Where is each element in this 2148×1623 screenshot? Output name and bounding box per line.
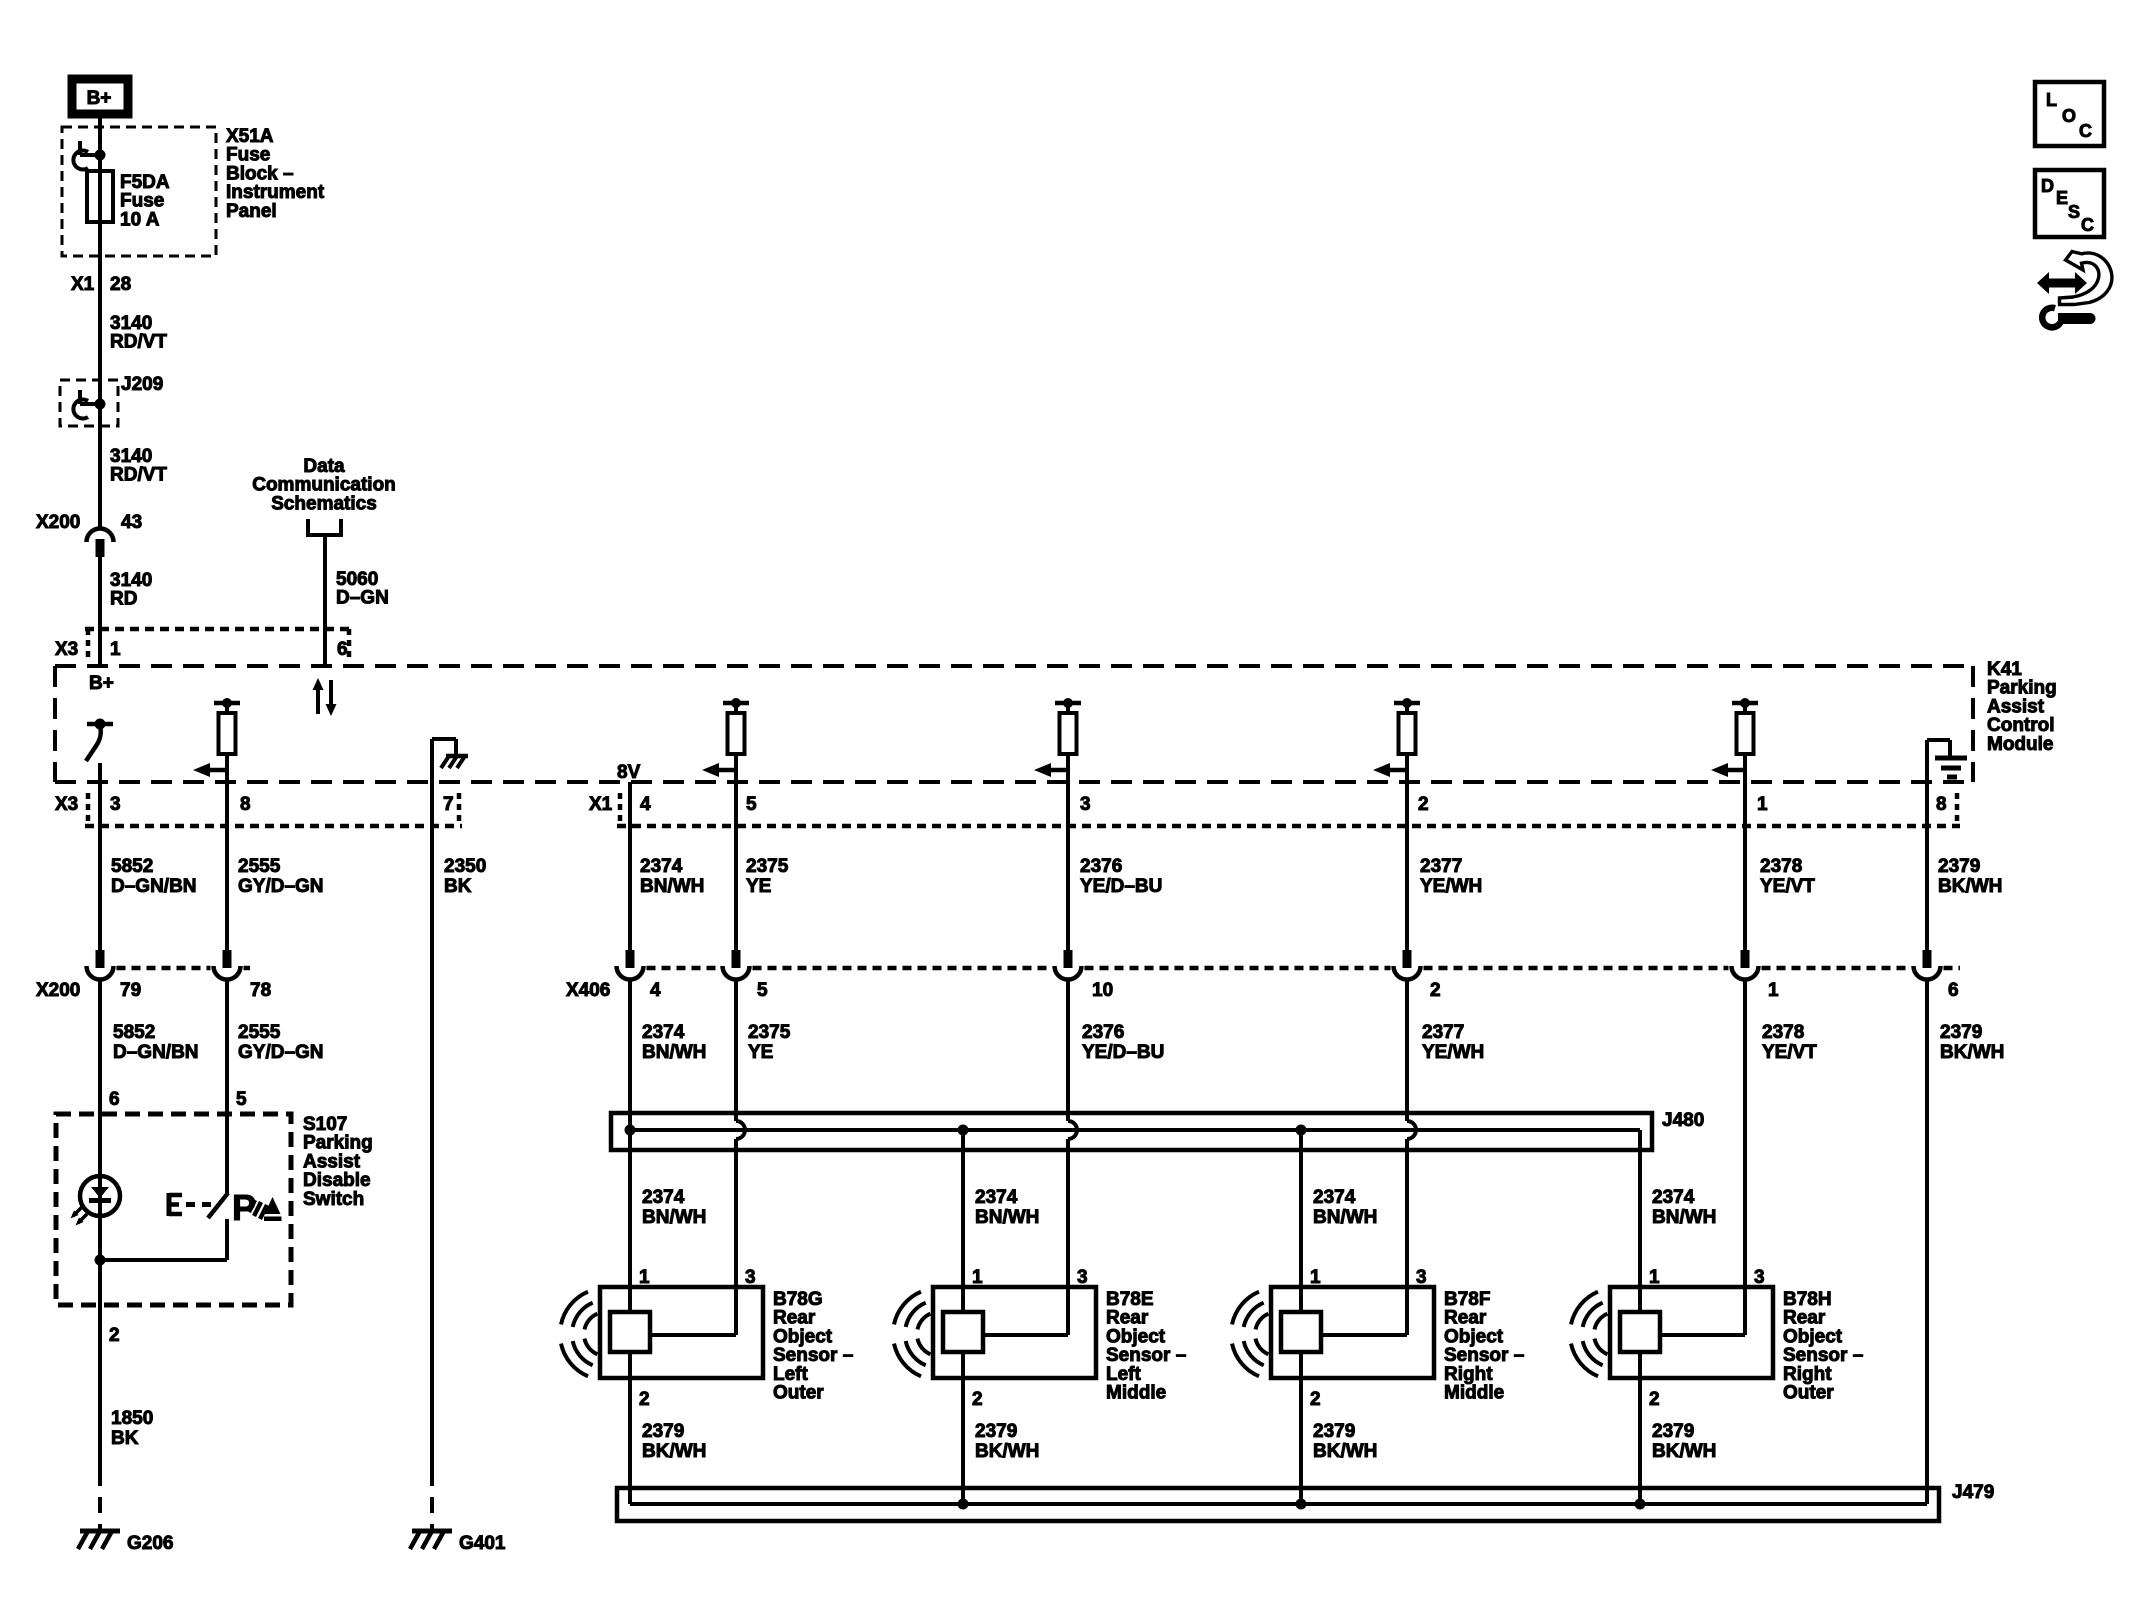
svg-text:Schematics: Schematics [271, 493, 377, 514]
connector X3 top row dotted line [85, 627, 352, 632]
off-page bracket [308, 519, 341, 535]
earth ground inside K41 [1925, 740, 1929, 826]
wire B78F internal pin3 link [1321, 1333, 1407, 1337]
chassis ground inside K41 [430, 739, 434, 826]
svg-text:4: 4 [640, 794, 651, 815]
svg-text:2378: 2378 [1760, 856, 1802, 877]
actuator link dashes [186, 1202, 212, 1207]
svg-text:2: 2 [972, 1389, 983, 1410]
wire 2379 [1925, 826, 1929, 950]
splice J209 hook [95, 399, 106, 410]
wire 5852 [98, 763, 102, 950]
connector X406 row [647, 966, 720, 971]
data link arrows [316, 688, 320, 714]
svg-text:2350: 2350 [444, 856, 486, 877]
svg-text:YE: YE [748, 1042, 773, 1063]
svg-text:8: 8 [1936, 794, 1947, 815]
fuse F5DA [87, 171, 113, 222]
svg-text:4: 4 [650, 980, 661, 1001]
sensor B78G Rear Object Sensor box [600, 1287, 763, 1378]
svg-text:3: 3 [1416, 1267, 1427, 1288]
switch inside K41 [87, 722, 113, 727]
svg-text:J480: J480 [1662, 1110, 1704, 1131]
svg-text:L: L [2046, 90, 2057, 110]
legend LOC box [2035, 82, 2104, 146]
svg-text:2555: 2555 [238, 1022, 281, 1043]
svg-text:1: 1 [1768, 980, 1779, 1001]
svg-text:X3: X3 [55, 639, 78, 660]
svg-text:5: 5 [236, 1089, 247, 1110]
svg-text:BK: BK [444, 876, 472, 897]
svg-text:5: 5 [746, 794, 757, 815]
svg-text:2379: 2379 [1940, 1022, 1982, 1043]
wire B+ to fuse block [98, 114, 102, 171]
svg-text:3: 3 [1080, 794, 1091, 815]
svg-text:C: C [2081, 215, 2094, 235]
wire 5060 D-GN [323, 535, 327, 666]
wire B78G pin1 [628, 1287, 632, 1312]
LED indicator in S107 [80, 1176, 120, 1216]
splice pack J480 box [611, 1113, 1652, 1150]
svg-text:1: 1 [1649, 1267, 1660, 1288]
wire 2378 [1743, 770, 1747, 950]
svg-text:2: 2 [109, 1325, 120, 1346]
sonar waves of B78G [585, 1314, 598, 1330]
svg-text:RD/VT: RD/VT [110, 465, 167, 486]
splice J209 dashed box [60, 380, 118, 426]
svg-text:Outer: Outer [1783, 1383, 1834, 1404]
ground G206 [80, 1529, 120, 1534]
resistor in K41 (2376) [1055, 701, 1081, 706]
sensor B78E transducer square [943, 1312, 983, 1352]
svg-text:2374: 2374 [642, 1187, 685, 1208]
svg-text:2376: 2376 [1082, 1022, 1124, 1043]
resistor in K41 (2378) [1732, 701, 1758, 706]
svg-text:2: 2 [1310, 1389, 1321, 1410]
wire B78G internal pin3 link [650, 1333, 736, 1337]
svg-text:BN/WH: BN/WH [1652, 1207, 1716, 1228]
wire 2374 [628, 782, 632, 950]
svg-text:2: 2 [1430, 980, 1441, 1001]
ground G401 [412, 1529, 452, 1534]
svg-text:43: 43 [121, 512, 142, 533]
splice J479 bus wire [630, 1502, 1927, 1506]
fuse block feed hook [95, 150, 106, 161]
svg-text:BK/WH: BK/WH [1940, 1042, 2004, 1063]
svg-text:D–GN/BN: D–GN/BN [111, 876, 197, 897]
svg-text:GY/D–GN: GY/D–GN [238, 876, 324, 897]
wire 2555 [225, 826, 229, 950]
svg-text:7: 7 [443, 794, 454, 815]
svg-text:1850: 1850 [111, 1408, 153, 1429]
sensor B78H Rear Object Sensor box [1610, 1287, 1773, 1378]
svg-text:2374: 2374 [1652, 1187, 1695, 1208]
wire B78H pin2 to J479 [1638, 1352, 1642, 1504]
node B+ battery feed box [72, 79, 128, 114]
svg-text:Outer: Outer [773, 1383, 824, 1404]
wire J480 to B78F pin 1 [1299, 1130, 1303, 1312]
connector X200-43 inline connector [87, 529, 114, 543]
svg-text:2375: 2375 [748, 1022, 791, 1043]
wire 2350 [430, 826, 434, 1470]
svg-text:B+: B+ [89, 673, 114, 694]
sensor B78E Rear Object Sensor box [933, 1287, 1096, 1378]
sonar waves of B78E [918, 1314, 931, 1330]
svg-text:Middle: Middle [1444, 1383, 1504, 1404]
svg-text:RD/VT: RD/VT [110, 332, 167, 353]
svg-text:2374: 2374 [1313, 1187, 1356, 1208]
svg-text:Switch: Switch [303, 1189, 364, 1210]
svg-text:BN/WH: BN/WH [642, 1207, 706, 1228]
svg-text:BN/WH: BN/WH [1313, 1207, 1377, 1228]
svg-text:1: 1 [972, 1267, 983, 1288]
resistor in K41 (2375) [723, 701, 749, 706]
svg-text:28: 28 [110, 274, 131, 295]
svg-text:Module: Module [1987, 734, 2054, 755]
svg-text:YE/VT: YE/VT [1762, 1042, 1817, 1063]
svg-text:BK/WH: BK/WH [1938, 876, 2002, 897]
switch actuator E symbol [167, 1193, 172, 1216]
svg-text:D: D [2041, 176, 2054, 196]
switch S107 dashed box [56, 1114, 291, 1305]
svg-text:YE/WH: YE/WH [1420, 876, 1482, 897]
svg-text:5: 5 [757, 980, 768, 1001]
svg-text:J479: J479 [1952, 1482, 1994, 1503]
svg-text:E: E [2056, 188, 2068, 208]
svg-text:2555: 2555 [238, 856, 281, 877]
svg-text:10 A: 10 A [120, 209, 160, 230]
svg-text:1: 1 [639, 1267, 650, 1288]
sensor B78F transducer square [1281, 1312, 1321, 1352]
svg-text:BK/WH: BK/WH [642, 1441, 706, 1462]
svg-text:X1: X1 [71, 274, 95, 295]
wire B78E internal pin3 link [983, 1333, 1068, 1337]
svg-text:2376: 2376 [1080, 856, 1122, 877]
wire 1850 BK [98, 1216, 102, 1470]
svg-text:2379: 2379 [975, 1421, 1017, 1442]
svg-text:8: 8 [240, 794, 251, 815]
wire B78E pin2 to J479 [961, 1352, 965, 1504]
svg-text:YE/D–BU: YE/D–BU [1080, 876, 1162, 897]
svg-text:1: 1 [1757, 794, 1768, 815]
sensor B78G transducer square [610, 1312, 650, 1352]
svg-text:G206: G206 [127, 1533, 173, 1554]
svg-text:X200: X200 [36, 980, 80, 1001]
svg-text:BK/WH: BK/WH [975, 1441, 1039, 1462]
wire B78F pin2 to J479 [1299, 1352, 1303, 1504]
svg-text:G401: G401 [459, 1533, 506, 1554]
svg-text:5852: 5852 [111, 856, 153, 877]
dashed wire to G206 [98, 1470, 102, 1531]
switch blade [208, 1193, 228, 1218]
svg-text:X200: X200 [36, 512, 80, 533]
svg-text:6: 6 [109, 1089, 120, 1110]
svg-text:Middle: Middle [1106, 1383, 1166, 1404]
svg-text:BN/WH: BN/WH [975, 1207, 1039, 1228]
svg-text:2: 2 [1418, 794, 1429, 815]
splice J480 bus wire [630, 1128, 1640, 1132]
wire 2376 to B78E pin 3 (hops J480) [1066, 980, 1070, 1121]
wire fuse output [98, 222, 102, 529]
svg-text:2374: 2374 [642, 1022, 685, 1043]
svg-text:BK: BK [111, 1428, 139, 1449]
svg-text:YE/D–BU: YE/D–BU [1082, 1042, 1164, 1063]
sensor B78H transducer square [1620, 1312, 1660, 1352]
LED light arrows [73, 1207, 82, 1216]
svg-text:S: S [2068, 202, 2080, 222]
svg-text:1: 1 [1310, 1267, 1321, 1288]
svg-text:X1: X1 [589, 794, 613, 815]
svg-text:RD: RD [110, 589, 137, 610]
svg-text:2379: 2379 [1652, 1421, 1694, 1442]
wire 2376 [1066, 770, 1070, 950]
svg-text:10: 10 [1092, 980, 1113, 1001]
svg-text:8V: 8V [617, 762, 641, 783]
legend repair icon [2037, 272, 2087, 294]
sensor B78F Rear Object Sensor box [1271, 1287, 1434, 1378]
svg-text:O: O [2062, 106, 2076, 126]
svg-text:X3: X3 [55, 794, 78, 815]
connector X3 bottom row [85, 824, 462, 829]
wire 2377 to B78F pin 3 (hops J480) [1405, 980, 1409, 1121]
svg-text:J209: J209 [121, 374, 163, 395]
svg-text:6: 6 [1948, 980, 1959, 1001]
svg-text:2379: 2379 [1938, 856, 1980, 877]
svg-text:2: 2 [1649, 1389, 1660, 1410]
svg-text:BN/WH: BN/WH [640, 876, 704, 897]
sonar waves of B78H [1595, 1314, 1608, 1330]
svg-text:3: 3 [110, 794, 121, 815]
svg-text:X406: X406 [566, 980, 610, 1001]
svg-text:2379: 2379 [1313, 1421, 1355, 1442]
svg-text:D–GN: D–GN [336, 588, 389, 609]
svg-text:YE: YE [746, 876, 771, 897]
wire J480 to B78E pin 1 [961, 1130, 965, 1312]
connector X1 row [617, 824, 1960, 829]
svg-text:78: 78 [250, 980, 271, 1001]
svg-text:BN/WH: BN/WH [642, 1042, 706, 1063]
wire into S107 switch [225, 980, 229, 1194]
svg-text:5852: 5852 [113, 1022, 155, 1043]
svg-text:1: 1 [110, 639, 121, 660]
svg-text:2378: 2378 [1762, 1022, 1804, 1043]
svg-text:2379: 2379 [642, 1421, 684, 1442]
fuse block X51A dashed box [62, 127, 216, 256]
svg-text:YE/VT: YE/VT [1760, 876, 1815, 897]
dashed wire to G401 [430, 1470, 434, 1531]
wire B78H internal pin3 link [1660, 1333, 1745, 1337]
wire 3140 RD [98, 555, 102, 666]
wire 2377 [1405, 770, 1409, 950]
svg-text:79: 79 [120, 980, 141, 1001]
svg-text:6: 6 [337, 639, 348, 660]
svg-text:2: 2 [639, 1389, 650, 1410]
resistor in K41 (2555 output) [214, 701, 240, 706]
svg-text:2377: 2377 [1420, 856, 1462, 877]
svg-text:2374: 2374 [640, 856, 683, 877]
svg-text:B+: B+ [87, 88, 112, 109]
wire 2375 [734, 770, 738, 950]
wire J480 to B78H pin 1 [1638, 1130, 1642, 1312]
module K41 dashed box [55, 664, 1973, 668]
svg-text:3: 3 [1754, 1267, 1765, 1288]
S107 internal link wire [100, 1258, 227, 1262]
wire 2379 to J479 [1925, 980, 1929, 1504]
svg-text:YE/WH: YE/WH [1422, 1042, 1484, 1063]
wire into S107 LED [98, 980, 102, 1176]
svg-text:C: C [2079, 121, 2092, 141]
svg-text:2374: 2374 [975, 1187, 1018, 1208]
svg-text:2377: 2377 [1422, 1022, 1464, 1043]
svg-text:3: 3 [1077, 1267, 1088, 1288]
svg-text:3: 3 [745, 1267, 756, 1288]
wire 2378 to B78H pin 3 [1743, 980, 1747, 1335]
svg-text:D–GN/BN: D–GN/BN [113, 1042, 199, 1063]
legend DESC box [2035, 170, 2104, 237]
wire 2375 to B78G pin 3 (hops J480) [734, 980, 738, 1121]
splice pack J479 box [617, 1488, 1939, 1521]
svg-text:GY/D–GN: GY/D–GN [238, 1042, 324, 1063]
svg-text:BK/WH: BK/WH [1652, 1441, 1716, 1462]
wire B78G pin2 to J479 [628, 1352, 632, 1504]
resistor in K41 (2377) [1394, 701, 1420, 706]
svg-text:Panel: Panel [226, 201, 277, 222]
connector X200 row [117, 966, 211, 971]
sonar waves of B78F [1256, 1314, 1269, 1330]
wire 2374 to J480 [628, 980, 632, 1287]
svg-text:2375: 2375 [746, 856, 789, 877]
svg-text:BK/WH: BK/WH [1313, 1441, 1377, 1462]
